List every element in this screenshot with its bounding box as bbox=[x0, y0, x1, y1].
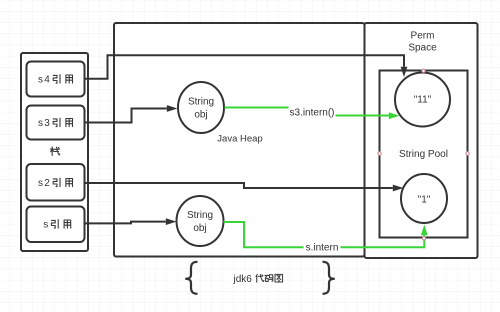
circle 1 bbox=[401, 174, 447, 223]
box s引用 bbox=[27, 207, 85, 243]
svg-text:String: String bbox=[188, 97, 214, 108]
wire s4 to circle 11 bbox=[85, 55, 405, 79]
svg-text:String: String bbox=[187, 210, 213, 221]
circle 11 bbox=[395, 73, 450, 127]
svg-text:obj: obj bbox=[193, 223, 206, 234]
svg-text:"1": "1" bbox=[418, 194, 431, 205]
green wire s3.intern() bbox=[225, 108, 389, 116]
String Pool box bbox=[380, 71, 468, 238]
svg-text:s2: s2 bbox=[38, 178, 51, 189]
svg-text:jdk6: jdk6 bbox=[233, 274, 253, 285]
box s4引用 bbox=[27, 62, 85, 97]
wire s2 to circle 1 bbox=[85, 183, 393, 188]
connection dot right of String Pool bbox=[466, 152, 469, 155]
green wire s.intern bbox=[224, 222, 425, 247]
svg-text:String Pool: String Pool bbox=[399, 149, 448, 160]
connection dot bottom of String Pool (green bend) bbox=[422, 237, 425, 240]
svg-text:Space: Space bbox=[408, 43, 437, 54]
wire s to String obj bottom bbox=[85, 222, 166, 224]
box s3引用 bbox=[27, 106, 85, 140]
Java Heap box bbox=[114, 23, 365, 257]
svg-text:Perm: Perm bbox=[411, 31, 435, 42]
stack outer box bbox=[21, 53, 88, 251]
svg-text:s3.intern(): s3.intern() bbox=[289, 108, 334, 119]
brace left bbox=[185, 262, 197, 294]
svg-text:Java Heap: Java Heap bbox=[217, 133, 262, 144]
svg-text:s: s bbox=[43, 220, 48, 231]
Perm Space box bbox=[365, 23, 478, 258]
svg-text:obj: obj bbox=[194, 110, 207, 121]
svg-text:s3: s3 bbox=[38, 118, 51, 129]
label jdk6 代码图 bbox=[233, 274, 283, 285]
wire s3 to String obj top bbox=[85, 109, 167, 123]
connection dot top of String Pool bbox=[422, 69, 425, 72]
svg-text:"11": "11" bbox=[414, 94, 432, 105]
connection dot left of String Pool bbox=[378, 152, 381, 155]
svg-text:s.intern: s.intern bbox=[306, 243, 339, 254]
String obj circle top bbox=[178, 82, 224, 133]
brace right bbox=[323, 262, 335, 294]
svg-text:s4: s4 bbox=[38, 75, 51, 86]
box s2引用 bbox=[27, 164, 85, 201]
label 栈 bbox=[50, 147, 59, 156]
String obj circle bottom bbox=[177, 196, 224, 246]
